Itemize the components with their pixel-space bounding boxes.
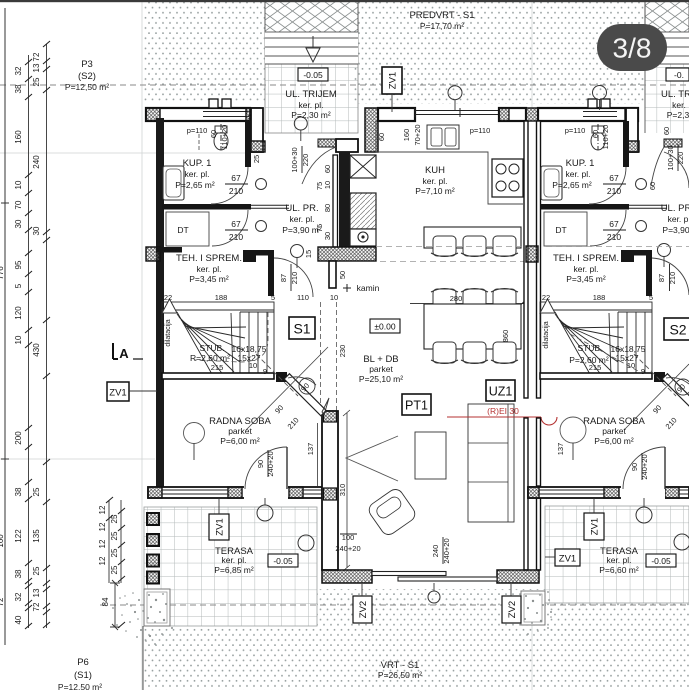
- left porch steps: [265, 38, 358, 64]
- svg-text:95: 95: [14, 260, 23, 269]
- svg-text:87: 87: [657, 274, 666, 282]
- box -0.05 left terrace: [268, 554, 298, 567]
- dashed property line top: [0, 84, 689, 86]
- svg-text:ZV1: ZV1: [590, 518, 601, 535]
- svg-text:240: 240: [431, 545, 440, 558]
- svg-text:(S1): (S1): [74, 670, 92, 681]
- svg-text:80: 80: [323, 204, 332, 212]
- entry door arc left unit: [302, 147, 336, 184]
- svg-text:UZ1: UZ1: [489, 385, 513, 399]
- svg-text:430: 430: [32, 343, 41, 357]
- wall: entry front wall right of door: [336, 139, 358, 152]
- svg-text:ker.: ker.: [672, 100, 686, 110]
- planter middle speckled: [521, 591, 545, 625]
- badge 3/8: [597, 24, 667, 71]
- svg-text:30: 30: [323, 232, 332, 240]
- svg-text:100+30: 100+30: [290, 147, 299, 172]
- svg-text:P=6,00 m²: P=6,00 m²: [220, 436, 260, 446]
- svg-text:ker. pl.: ker. pl.: [422, 176, 447, 186]
- svg-text:kamin: kamin: [357, 283, 380, 293]
- svg-text:UL. TRIJEM: UL. TRIJEM: [285, 89, 337, 100]
- svg-text:TEH. I SPREM.: TEH. I SPREM.: [176, 253, 242, 264]
- svg-text:10: 10: [14, 180, 23, 189]
- svg-text:110+20: 110+20: [601, 125, 610, 150]
- wall pier hatched party1 low: [324, 411, 337, 422]
- wall: party wall 1 outlined lower: [322, 411, 338, 570]
- wall: party1 hidden dashed edges: [321, 302, 337, 411]
- svg-text:ZV1: ZV1: [388, 72, 399, 89]
- wall: porch side wall vertical: [251, 108, 263, 152]
- svg-text:P=2,3: P=2,3: [667, 110, 689, 120]
- wall pier hatched left unit front: [246, 108, 260, 121]
- svg-text:67: 67: [609, 219, 619, 229]
- dilatacija arrow right: [540, 299, 555, 313]
- svg-text:5: 5: [271, 293, 275, 302]
- wall pier hatched right porch corner: [624, 141, 639, 152]
- leader lines: [194, 100, 644, 592]
- chairs row A: [431, 236, 518, 257]
- dilatacija arrow left: [162, 299, 177, 313]
- svg-text:ZV1: ZV1: [109, 388, 126, 399]
- svg-text:240+20: 240+20: [335, 544, 360, 553]
- bath tub right unit: [541, 166, 562, 200]
- box ZV1 right horizontal: [555, 549, 580, 566]
- svg-text:60: 60: [591, 130, 600, 138]
- box UZ1: [486, 380, 515, 401]
- wall pier hatched party2: [526, 246, 538, 262]
- wall: UL.PR east thin partition: [333, 155, 338, 247]
- svg-text:-0.05: -0.05: [273, 556, 293, 566]
- wall: KUP.1/UL.PR. partition: [245, 121, 251, 167]
- svg-text:ZV1: ZV1: [559, 554, 576, 565]
- ceiling light circle radna right: [560, 417, 586, 443]
- pergola dim chain numbers: [98, 505, 119, 606]
- svg-text:38: 38: [14, 569, 23, 578]
- svg-text:75: 75: [315, 224, 324, 232]
- svg-text:30: 30: [14, 219, 23, 228]
- entry door panel right unit: [664, 139, 682, 147]
- box -0.05 porch: [298, 68, 328, 81]
- svg-text:137: 137: [556, 443, 565, 456]
- DT closet right: [544, 212, 587, 246]
- svg-text:60: 60: [662, 127, 671, 135]
- dashed axis line: [380, 261, 524, 263]
- svg-text:280: 280: [450, 294, 463, 303]
- svg-text:860: 860: [501, 330, 510, 343]
- svg-text:parket: parket: [602, 426, 626, 436]
- left unit TERASA tiles: [144, 507, 317, 626]
- svg-text:90: 90: [630, 463, 639, 471]
- svg-text:P=3,90: P=3,90: [662, 225, 689, 235]
- svg-text:10: 10: [14, 335, 23, 344]
- wall: left exterior west wall: [156, 118, 164, 490]
- svg-text:ker. pl.: ker. pl.: [184, 169, 209, 179]
- chimney flue hatched: [350, 193, 376, 229]
- svg-text:25: 25: [110, 514, 119, 523]
- terrace door opening left unit: [244, 486, 288, 500]
- svg-text:STUB.: STUB.: [577, 343, 602, 353]
- wall: right TEH L-wall: [621, 250, 652, 256]
- door UZ1 opening red arc: [541, 417, 557, 425]
- svg-text:12: 12: [98, 556, 107, 565]
- svg-text:230: 230: [338, 345, 347, 358]
- wall: left unit front wall segment: [146, 108, 250, 121]
- dim line 137: [317, 423, 319, 486]
- chairs row C: [431, 342, 518, 364]
- box ZV2 right vertical: [502, 596, 521, 623]
- svg-text:38: 38: [14, 487, 23, 496]
- shaft x-box: [350, 155, 376, 178]
- wall: stair bottom wall: [162, 373, 274, 379]
- chain numbers column A: [14, 66, 23, 624]
- sink leader left unit: [198, 134, 200, 150]
- svg-text:P6: P6: [77, 657, 89, 668]
- svg-text:DT: DT: [177, 225, 188, 235]
- svg-text:5: 5: [649, 293, 653, 302]
- left porch crosshatch entry steps top: [265, 0, 358, 64]
- box S1: [289, 317, 315, 339]
- boiler box: [350, 229, 376, 246]
- svg-text:110: 110: [297, 293, 309, 302]
- wall: right unit bottom wall band: [528, 487, 689, 498]
- svg-text:70: 70: [14, 200, 23, 209]
- red line REI30: [447, 416, 541, 418]
- far left numbers: [0, 266, 5, 607]
- svg-text:25: 25: [110, 548, 119, 557]
- stipple garden PREDVRT - S1 top main: [354, 0, 645, 104]
- svg-text:dilatacija: dilatacija: [543, 321, 550, 348]
- svg-text:70+20: 70+20: [413, 124, 422, 145]
- top border line: [0, 0, 689, 2]
- bath tub KUP.1 left: [163, 166, 184, 200]
- svg-text:200: 200: [14, 431, 23, 445]
- wall: middle unit front wall: [378, 108, 415, 121]
- svg-text:P=3,45 m²: P=3,45 m²: [566, 274, 606, 284]
- svg-text:10: 10: [249, 361, 257, 370]
- svg-text:188: 188: [593, 293, 606, 302]
- wall: right KUP partition: [623, 121, 629, 167]
- toilet left unit: [214, 132, 228, 150]
- door arc KUP.1 67: [211, 167, 248, 204]
- wall: chimney west wall: [339, 152, 350, 247]
- window in left bottom wall: [162, 490, 322, 494]
- svg-text:-0.05: -0.05: [651, 556, 671, 566]
- window right bottom wall: [539, 490, 689, 494]
- svg-text:KUP. 1: KUP. 1: [566, 158, 595, 169]
- svg-text:-0.05: -0.05: [303, 70, 323, 80]
- svg-text:120: 120: [14, 306, 23, 320]
- svg-text:32: 32: [14, 592, 23, 601]
- svg-text:P=3,45 m²: P=3,45 m²: [189, 274, 229, 284]
- svg-text:67: 67: [231, 219, 241, 229]
- wall pier hatched top-left corner: [146, 108, 160, 121]
- dilatacija labels: [165, 319, 550, 348]
- entry door panel left unit: [318, 139, 336, 147]
- vent squares above window: [209, 99, 218, 108]
- svg-text:DT: DT: [555, 225, 566, 235]
- svg-text:UL. PR: UL. PR: [661, 203, 689, 214]
- svg-text:PREDVRT - S1: PREDVRT - S1: [409, 10, 474, 21]
- light circles: [294, 117, 307, 130]
- svg-text:215: 215: [589, 363, 602, 372]
- diagonal door labels 90/210: [273, 403, 679, 431]
- svg-text:210: 210: [229, 232, 243, 242]
- svg-text:p=110: p=110: [565, 126, 586, 135]
- svg-text:25: 25: [32, 487, 41, 496]
- window right unit front: [583, 112, 617, 117]
- svg-text:ZV1: ZV1: [215, 518, 226, 535]
- svg-text:60: 60: [323, 165, 332, 173]
- svg-text:12: 12: [98, 505, 107, 514]
- svg-text:P=2,30 m²: P=2,30 m²: [291, 110, 331, 120]
- svg-text:13: 13: [32, 63, 41, 72]
- wall pier hatched party2 top: [526, 108, 538, 121]
- door arc right TEH 87: [652, 258, 689, 295]
- svg-text:UL. TR: UL. TR: [661, 89, 689, 100]
- svg-text:32: 32: [14, 66, 23, 75]
- svg-text:22: 22: [164, 293, 172, 302]
- stipple top right corner strip: [645, 0, 689, 1]
- wall pier hatched west mid: [146, 247, 160, 261]
- svg-text:67: 67: [609, 173, 619, 183]
- box S2: [664, 318, 689, 340]
- wall pier hatched: [499, 108, 509, 121]
- svg-text:(S2): (S2): [78, 71, 96, 82]
- wall: TEH L-wall horizontal: [243, 250, 274, 256]
- svg-text:25: 25: [110, 565, 119, 574]
- svg-text:240+20: 240+20: [640, 454, 649, 479]
- svg-text:15: 15: [304, 250, 313, 258]
- left porch UL. TRIJEM tiles: [265, 0, 358, 133]
- box ZV1 left terrace vertical: [209, 514, 229, 540]
- svg-text:310: 310: [338, 484, 347, 497]
- rotated dim texts: [209, 124, 685, 563]
- svg-text:38: 38: [14, 84, 23, 93]
- dining table 1: [424, 227, 521, 248]
- parquet direction mark: [346, 436, 398, 481]
- svg-text:13: 13: [32, 588, 41, 597]
- svg-text:60: 60: [377, 133, 386, 141]
- svg-text:ker. pl.: ker. pl.: [221, 555, 246, 565]
- svg-text:p=110: p=110: [470, 126, 491, 135]
- svg-text:12: 12: [98, 522, 107, 531]
- svg-text:p=110: p=110: [187, 126, 208, 135]
- svg-text:STUB.: STUB.: [199, 343, 224, 353]
- wall: middle unit bottom wall: [322, 570, 372, 583]
- door arc TEH 87: [274, 258, 313, 297]
- planter left speckled: [144, 589, 170, 626]
- svg-text:UL. PR.: UL. PR.: [285, 203, 318, 214]
- svg-text:ker. pl.: ker. pl.: [573, 264, 598, 274]
- svg-text:10: 10: [323, 181, 332, 189]
- stipple garden VRT bottom band: [143, 626, 689, 690]
- wall: left unit bottom wall band: [148, 487, 336, 498]
- svg-text:137: 137: [306, 443, 315, 456]
- diagonal entry door radna soba right: [624, 354, 689, 430]
- svg-text:S2: S2: [669, 322, 686, 338]
- svg-text:9: 9: [263, 367, 267, 376]
- window middle unit front: [415, 108, 505, 117]
- small dim texts horizontal: [164, 126, 653, 553]
- svg-text:72: 72: [0, 597, 5, 606]
- wall: party wall 2 lower: [524, 418, 528, 570]
- svg-text:72: 72: [32, 52, 41, 61]
- sink: [427, 125, 459, 149]
- svg-text:30: 30: [32, 226, 41, 235]
- svg-text:parket: parket: [369, 364, 393, 374]
- kamin cross: [343, 284, 351, 292]
- wall pier hatched porch corner: [250, 141, 265, 152]
- wall: party wall 2 (middle/right) upper: [524, 121, 528, 398]
- rotated fraction lines: [221, 124, 678, 564]
- fraction labels 67/210: [229, 173, 621, 242]
- wall: kamin hatched wall: [318, 247, 376, 261]
- box ZV1 porch vertical: [382, 67, 402, 94]
- svg-text:ker. pl.: ker. pl.: [298, 100, 323, 110]
- svg-text:188: 188: [215, 293, 228, 302]
- svg-text:135: 135: [32, 529, 41, 543]
- terrace door opening right unit: [621, 486, 665, 500]
- tick slashes chain A: [25, 41, 125, 629]
- wall pier hatched right unit front: [625, 108, 638, 121]
- svg-text:210: 210: [607, 186, 621, 196]
- svg-text:±0.00: ±0.00: [374, 322, 395, 332]
- svg-text:PT1: PT1: [405, 399, 428, 413]
- svg-text:(R)EI 30: (R)EI 30: [487, 406, 519, 416]
- sofa: [468, 404, 514, 522]
- svg-text:50: 50: [338, 271, 347, 279]
- right unit TERASA tiles: [545, 506, 689, 603]
- svg-text:215: 215: [211, 363, 224, 372]
- wall: kamin stub: [329, 261, 336, 288]
- svg-text:parket: parket: [228, 426, 252, 436]
- svg-text:25: 25: [252, 155, 261, 163]
- diagonal entry door radna soba left: [246, 347, 329, 430]
- svg-text:P=26,50 m²: P=26,50 m²: [378, 670, 422, 680]
- wall: TEH L-wall vertical: [268, 250, 274, 296]
- svg-text:P=6,00 m²: P=6,00 m²: [594, 436, 634, 446]
- chain lines: [28, 55, 30, 628]
- svg-text:87: 87: [279, 274, 288, 282]
- armchair rotated: [366, 486, 418, 537]
- svg-text:240: 240: [32, 155, 41, 169]
- svg-text:A: A: [119, 346, 129, 361]
- svg-text:TEH. I SPREM.: TEH. I SPREM.: [553, 253, 619, 264]
- kitchen counter top: [376, 121, 523, 204]
- svg-text:5: 5: [14, 283, 23, 288]
- svg-text:60: 60: [209, 130, 218, 138]
- dashed property line bottom: [100, 604, 689, 606]
- svg-text:12: 12: [98, 539, 107, 548]
- svg-text:P=6,60 m²: P=6,60 m²: [599, 565, 639, 575]
- svg-text:dilatacija: dilatacija: [165, 319, 172, 346]
- svg-text:67: 67: [231, 173, 241, 183]
- entry door arc right unit: [651, 147, 689, 188]
- right porch strip (mirror, cut at edge): [645, 0, 689, 133]
- svg-text:60: 60: [648, 182, 657, 190]
- svg-text:KUP. 1: KUP. 1: [183, 158, 212, 169]
- stairs left unit: [162, 302, 274, 376]
- wall: interior wall below KUP.1: [162, 204, 251, 210]
- circled 90 markers: [299, 378, 315, 394]
- box ZV2 left vertical: [353, 596, 372, 623]
- box -0.05 right terrace: [646, 554, 676, 567]
- svg-text:25: 25: [32, 566, 41, 575]
- svg-text:-0.: -0.: [674, 70, 684, 80]
- svg-text:72: 72: [32, 602, 41, 611]
- svg-text:KUH: KUH: [425, 165, 445, 176]
- svg-text:ker. pl.: ker. pl.: [196, 264, 221, 274]
- wall: middle front right piece: [499, 108, 526, 121]
- svg-text:210: 210: [229, 186, 243, 196]
- box PT1: [402, 394, 431, 415]
- svg-text:25: 25: [32, 77, 41, 86]
- svg-text:90: 90: [256, 460, 265, 468]
- svg-text:776: 776: [0, 266, 5, 280]
- dashed grid small: [376, 246, 524, 248]
- svg-text:P=7,10 m²: P=7,10 m²: [415, 186, 455, 196]
- wall: west stub at TEH: [156, 247, 182, 253]
- door arc DT 67: [212, 210, 248, 246]
- svg-text:ker. pl.: ker. pl.: [565, 169, 590, 179]
- stipple garden PREDVRT top-left strip: [143, 0, 265, 103]
- svg-text:75: 75: [315, 182, 324, 190]
- wall: interior wall below right KUP.1: [540, 204, 629, 210]
- svg-text:160: 160: [0, 534, 5, 548]
- svg-text:40: 40: [14, 615, 23, 624]
- stairs right unit: [540, 302, 652, 376]
- svg-text:ker. pl.: ker. pl.: [606, 555, 631, 565]
- coffee table: [415, 432, 446, 479]
- dim line 310: [343, 410, 350, 571]
- svg-text:P=12,50 m²: P=12,50 m²: [58, 682, 102, 690]
- svg-text:ZV2: ZV2: [507, 601, 518, 618]
- section marker A: [113, 343, 118, 359]
- svg-text:3/8: 3/8: [613, 33, 652, 64]
- sliding terrace door middle: [372, 572, 497, 582]
- vent squares right unit: [588, 99, 597, 108]
- svg-text:P=2,65 m²: P=2,65 m²: [175, 180, 215, 190]
- svg-text:220: 220: [676, 152, 685, 165]
- svg-text:P=2,65 m²: P=2,65 m²: [552, 180, 592, 190]
- box -0.05 right porch cut: [666, 68, 689, 81]
- window left unit front: [203, 112, 249, 117]
- svg-text:84: 84: [101, 597, 110, 606]
- svg-text:240+20: 240+20: [266, 451, 275, 476]
- wall: tall hatched pier middle unit NW corner: [365, 108, 378, 152]
- svg-text:10: 10: [330, 293, 338, 302]
- svg-text:160: 160: [402, 129, 411, 142]
- box ZV1 right terrace vertical: [584, 513, 604, 540]
- toilet right unit: [591, 132, 605, 150]
- svg-text:160: 160: [14, 130, 23, 144]
- box ZV1 margin: [107, 382, 129, 401]
- svg-text:P=17,70 m²: P=17,70 m²: [420, 21, 464, 31]
- svg-text:ZV2: ZV2: [358, 601, 369, 618]
- chairs row B: [431, 289, 518, 312]
- svg-text:P3: P3: [81, 59, 93, 70]
- dim line 280: [410, 301, 527, 307]
- svg-text:S1: S1: [293, 321, 310, 337]
- wall pier hatched party1 bottom: [324, 488, 337, 500]
- svg-text:210: 210: [607, 232, 621, 242]
- svg-text:ker. p: ker. p: [668, 214, 689, 224]
- DT closet: [166, 212, 209, 246]
- svg-text:22: 22: [542, 293, 550, 302]
- wall: right porch side wall vertical: [626, 108, 638, 152]
- stove: [492, 159, 523, 197]
- stair walk dashed line left: [195, 312, 268, 362]
